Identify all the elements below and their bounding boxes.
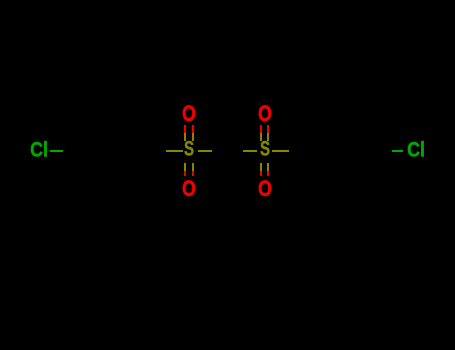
- wire double bond S2=O3 line b olive half: [267, 133, 269, 141]
- wire double bond S2=O4 line b red half: [267, 171, 269, 177]
- wire bond S1-CH2 (right olive stub): [198, 150, 213, 152]
- atom O3 (upper-right oxygen): [258, 103, 272, 125]
- wire double bond S2=O3 line a olive half: [260, 133, 262, 141]
- wire bond S2-C (right olive stub): [272, 150, 290, 152]
- atom Cl2 (right chlorine): [407, 139, 425, 160]
- wire double bond S1=O2 line b red half: [192, 171, 194, 177]
- wire double bond S1=O1 line b olive half: [192, 133, 194, 141]
- wire double bond S1=O1 line a red half: [184, 125, 186, 133]
- wire bond CH2-S2 (left olive stub): [243, 150, 257, 152]
- wire bond C-S1 (left olive stub): [166, 150, 182, 152]
- wire double bond S1=O1 line b red half: [192, 125, 194, 133]
- wire double bond S2=O4 line a red half: [260, 171, 262, 177]
- atom S1 (left sulfur): [184, 139, 194, 160]
- wire double bond S2=O4 line b olive half: [267, 163, 269, 171]
- wire double bond S2=O3 line b red half: [267, 125, 269, 133]
- wire double bond S1=O2 line a olive half: [184, 163, 186, 171]
- wire bond Cl1-C (green half): [50, 150, 63, 152]
- wire bond C-Cl2 (green half): [392, 150, 403, 152]
- wire double bond S2=O4 line a olive half: [260, 163, 262, 171]
- wire double bond S1=O1 line a olive half: [184, 133, 186, 141]
- wire double bond S1=O2 line b olive half: [192, 163, 194, 171]
- wire double bond S1=O2 line a red half: [184, 171, 186, 177]
- atom Cl1 (left chlorine): [30, 140, 48, 161]
- atom O4 (lower-right oxygen): [258, 178, 272, 200]
- atom O1 (upper-left oxygen): [182, 103, 196, 125]
- atom O2 (lower-left oxygen): [182, 178, 196, 200]
- atom S2 (right sulfur): [260, 139, 270, 160]
- wire double bond S2=O3 line a red half: [260, 125, 262, 133]
